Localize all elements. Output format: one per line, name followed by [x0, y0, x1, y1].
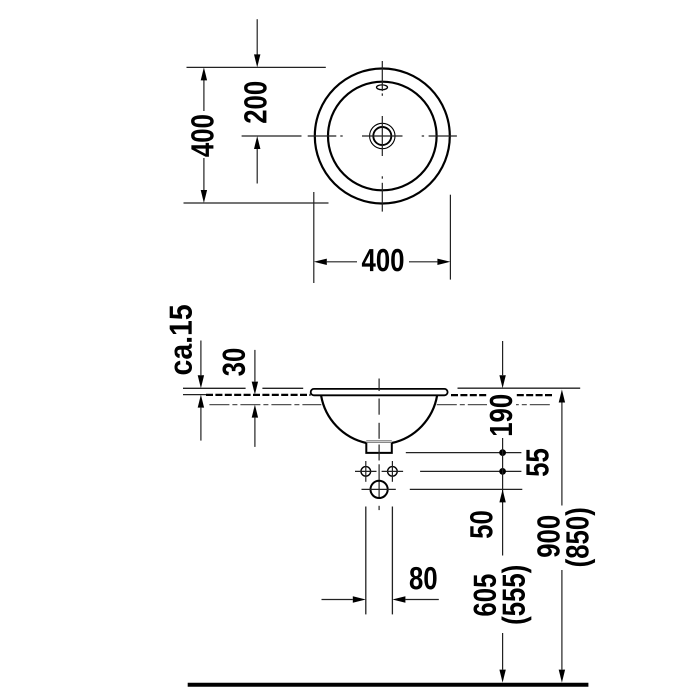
fixing hole right [388, 467, 398, 477]
basin rim bar [311, 389, 448, 395]
ca.15 dimension [200, 341, 202, 441]
label 190 [490, 395, 513, 435]
floor line [188, 683, 589, 687]
basin inner circle [328, 82, 437, 191]
bowl profile left [321, 396, 366, 443]
drain inner circle [373, 127, 391, 145]
dimension 400 horizontal below circle [314, 192, 451, 283]
fixing hole left [361, 467, 371, 477]
countertop line right [458, 387, 581, 389]
label 900 [537, 516, 560, 557]
reference line holes (55 bottom) [420, 470, 521, 472]
dimension 200 vertical [256, 19, 258, 183]
extension line bottom (circle bottom tangent) [184, 202, 329, 204]
alt height dash line right [437, 404, 553, 406]
side view vertical centerline [378, 379, 380, 511]
drain tailpiece rect [366, 443, 392, 453]
extension line top (circle top tangent) [187, 66, 326, 68]
label 400 (vertical) [191, 115, 214, 157]
dim 900 line x=561.9 [561, 402, 563, 670]
siphon circle [371, 481, 388, 498]
80 dimension [322, 599, 439, 601]
countertop lines left [183, 388, 303, 394]
dim 190/605 line x=502.6 [502, 341, 504, 670]
reference line siphon (50) [410, 488, 523, 490]
overflow ellipse [377, 85, 388, 90]
30 dimension [254, 350, 256, 447]
label ca.15 [170, 305, 192, 374]
drain outer circle [370, 123, 395, 148]
alt height dash line left [209, 404, 321, 406]
centerline vertical (top view) [381, 61, 383, 212]
bowl profile right [392, 396, 437, 443]
label 80 [410, 567, 437, 590]
label (555) [502, 566, 532, 624]
label 400 (horizontal) [362, 249, 404, 272]
label (850) [565, 509, 595, 567]
drain pipe lines [365, 507, 367, 615]
dimension 400 vertical [203, 78, 205, 192]
basin outer circle [315, 69, 450, 204]
label 50 [470, 511, 493, 538]
reference line drain bottom (55 top) [406, 452, 522, 454]
hidden rim dashed right [451, 394, 553, 396]
centerline horizontal (top view) [242, 135, 457, 137]
label 190 white backing [487, 393, 516, 439]
hidden rim dashed left [206, 394, 311, 396]
label 30 [222, 349, 245, 376]
label 55 [526, 449, 548, 476]
label 605 [473, 574, 496, 615]
label 200 [244, 82, 267, 123]
drain flange grey lines [366, 440, 392, 442]
